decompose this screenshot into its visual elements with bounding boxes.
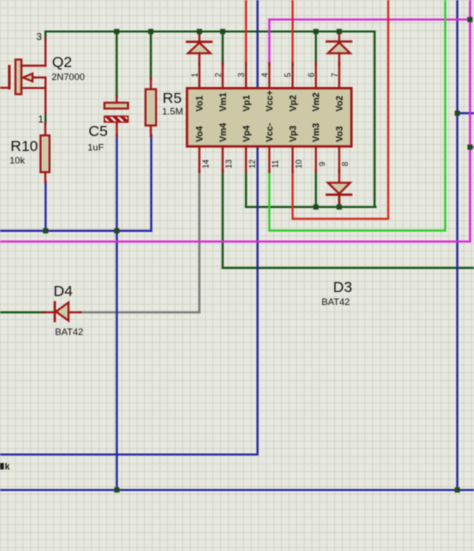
wire lower rail y207: [246, 206, 376, 208]
wire top rail net VG: [46, 30, 375, 32]
svg-text:C5: C5: [89, 123, 108, 140]
svg-text:13: 13: [225, 159, 234, 168]
svg-text:D4: D4: [54, 283, 73, 300]
resistor R5: [150, 78, 152, 89]
svg-text:10k: 10k: [10, 156, 26, 167]
svg-text:11: 11: [271, 159, 280, 168]
wire magenta pin4 up: [268, 20, 270, 66]
svg-text:Vo4: Vo4: [195, 126, 205, 142]
svg-text:Vp1: Vp1: [241, 95, 251, 112]
diode D2 (pin 7, cathode up): [338, 32, 340, 42]
wire pin9 to lower rail: [315, 170, 317, 207]
svg-text:2N7000: 2N7000: [52, 72, 85, 83]
svg-text:3: 3: [237, 72, 246, 77]
diode D4: [44, 311, 55, 313]
svg-text:Vm2: Vm2: [311, 92, 321, 111]
wire blue vertical x257: [0, 0, 258, 455]
wire blue bus y231: [0, 230, 151, 232]
svg-text:1.5M: 1.5M: [162, 107, 183, 118]
svg-text:9: 9: [318, 161, 327, 166]
label partial resistor value bottom-left: [0, 463, 4, 470]
svg-text:2: 2: [214, 72, 223, 77]
svg-text:Vm1: Vm1: [218, 92, 228, 111]
svg-text:BAT42: BAT42: [55, 327, 83, 338]
junction dots: [114, 29, 119, 34]
op-amp U1 body: [187, 88, 351, 146]
svg-text:Vm3: Vm3: [311, 123, 321, 142]
svg-text:14: 14: [201, 159, 210, 168]
svg-text:BAT42: BAT42: [322, 297, 350, 308]
svg-text:D3: D3: [333, 279, 352, 296]
wire blue bottom bus: [0, 489, 474, 491]
wire R10 bottom blue: [45, 182, 47, 231]
svg-text:Q2: Q2: [52, 54, 72, 71]
op-amp U1 pin stubs: [198, 63, 200, 88]
svg-text:Vo3: Vo3: [335, 126, 345, 142]
wire green pin11 net: [269, 0, 445, 231]
svg-text:Vp3: Vp3: [288, 125, 298, 142]
wire magenta top horizontal: [269, 18, 470, 20]
svg-text:Vo1: Vo1: [195, 96, 205, 112]
wire R5 bottom blue: [150, 135, 152, 231]
svg-text:3: 3: [36, 32, 42, 43]
wire red pin5 up: [292, 0, 294, 65]
resistor R10: [44, 123, 46, 135]
svg-text:5: 5: [284, 72, 293, 77]
svg-text:Vp4: Vp4: [241, 125, 251, 142]
svg-text:Vp2: Vp2: [288, 95, 298, 112]
wire right drop of rail: [374, 32, 376, 208]
svg-text:Vcc-: Vcc-: [265, 123, 275, 142]
wire blue stub to right edge: [457, 112, 474, 114]
svg-text:1uF: 1uF: [88, 143, 105, 154]
wire D4 cathode to left edge: [0, 311, 45, 313]
svg-text:6: 6: [307, 72, 316, 77]
wire magenta bus y242: [0, 240, 470, 242]
capacitor C5: [116, 96, 118, 103]
wire C5 bottom blue long: [116, 135, 118, 490]
wire rail to pin6: [315, 32, 317, 66]
wire Q2 source link: [44, 113, 46, 124]
svg-text:Vo2: Vo2: [335, 96, 345, 112]
diode D3 (pin 8, cathode down): [338, 170, 340, 183]
svg-text:R5: R5: [163, 90, 182, 107]
svg-text:10: 10: [295, 159, 304, 168]
wire grey horizontal to D4: [80, 311, 199, 313]
wire diode D5 cathode to lower rail: [338, 194, 340, 207]
wire magenta right vertical: [469, 0, 471, 242]
svg-text:1: 1: [38, 115, 44, 126]
svg-text:4: 4: [260, 72, 269, 77]
svg-text:1: 1: [191, 72, 200, 77]
transistor Q2: [0, 87, 9, 89]
wire blue vertical x457: [456, 0, 458, 490]
wire red pin10 net: [293, 0, 389, 219]
wire red pin3 up: [245, 0, 247, 65]
wire rail to pin2: [222, 32, 224, 66]
svg-text:Vcc+: Vcc+: [265, 90, 275, 111]
wire rail corner to Q2 drain: [44, 32, 46, 41]
svg-text:7: 7: [330, 72, 339, 77]
wire pin13 down: [222, 170, 224, 268]
wire pin12 to lower rail: [245, 170, 247, 207]
wire magenta stub right: [470, 146, 474, 148]
svg-text:R10: R10: [11, 138, 39, 155]
wire pin13 net to right edge: [223, 267, 474, 269]
svg-text:8: 8: [341, 161, 350, 166]
wire rail to R5: [150, 32, 152, 80]
svg-text:Vm4: Vm4: [218, 123, 228, 142]
wire pin14 grey down: [198, 170, 200, 312]
diode D1 (pin 1, cathode up): [198, 32, 200, 42]
wire rail to C5: [116, 32, 118, 98]
svg-text:12: 12: [248, 159, 257, 168]
